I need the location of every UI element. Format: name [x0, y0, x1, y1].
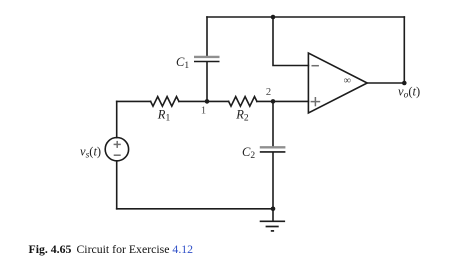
svg-text:C1: C1	[176, 55, 189, 71]
wire C2 top vertical	[272, 101, 274, 146]
op-amp U1	[308, 53, 367, 113]
node 1 junction	[205, 99, 210, 104]
svg-text:R1: R1	[157, 107, 171, 123]
svg-text:1: 1	[201, 106, 206, 117]
svg-text:C2: C2	[242, 145, 255, 161]
ground	[260, 221, 285, 231]
source plus sign	[114, 141, 121, 148]
wire right vertical to output	[403, 17, 405, 83]
svg-text:∞: ∞	[343, 76, 351, 87]
op-amp minus sign	[312, 65, 319, 67]
wire top feedback	[207, 16, 404, 18]
node output junction	[402, 81, 407, 86]
resistor R2	[229, 97, 257, 107]
wire source top vertical	[116, 101, 118, 137]
node 2 junction	[271, 99, 276, 104]
wire C1 bottom vertical	[206, 62, 208, 101]
node bottom junction	[271, 207, 276, 212]
source minus sign	[114, 154, 121, 156]
wire C2 bottom vertical	[272, 153, 274, 209]
node junction top feedback	[271, 15, 276, 20]
wire C1 top vertical	[206, 17, 208, 56]
resistor R1	[151, 97, 179, 107]
wire output	[367, 82, 404, 84]
wire R2 to noninverting input	[257, 100, 309, 102]
wire feedback down to inverting input	[273, 17, 308, 66]
source vs circle	[105, 138, 128, 161]
wire bottom	[117, 208, 273, 210]
svg-text:R2: R2	[235, 107, 249, 123]
svg-text:vs(t): vs(t)	[80, 145, 101, 161]
capacitor C1	[194, 57, 220, 62]
op-amp plus sign	[311, 97, 321, 106]
svg-text:Fig. 4.65Circuit for Exercise: Fig. 4.65Circuit for Exercise 4.12	[29, 242, 194, 256]
svg-text:vo(t): vo(t)	[398, 84, 420, 100]
wire node1 to R2	[179, 100, 229, 102]
wire source bottom vertical	[116, 161, 118, 209]
wire ground lead	[272, 209, 274, 221]
svg-text:2: 2	[266, 87, 271, 98]
capacitor C2	[260, 147, 286, 152]
wire main left segment	[117, 100, 151, 102]
